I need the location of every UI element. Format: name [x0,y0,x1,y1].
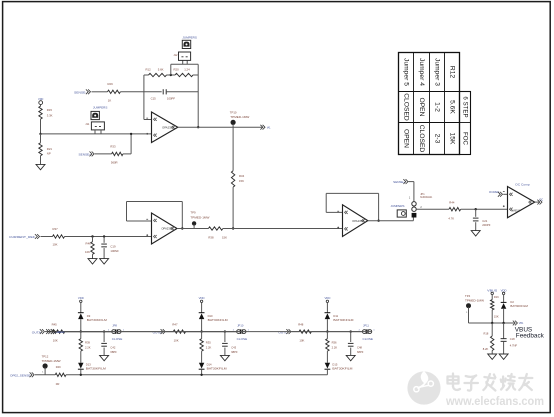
svg-text:OPA2350: OPA2350 [162,125,174,129]
svg-text:R37: R37 [53,227,59,231]
svg-text:TP9: TP9 [190,211,196,215]
svg-text:CURRENT_REF: CURRENT_REF [9,235,35,239]
svg-text:BAT30KFILM: BAT30KFILM [333,319,353,322]
svg-text:R18: R18 [484,332,489,336]
svg-text:JP10: JP10 [237,324,244,328]
svg-text:VDD: VDD [78,296,84,300]
svg-text:Feedback: Feedback [516,332,545,339]
svg-text:BAT30KFILM: BAT30KFILM [332,368,352,371]
svg-text:C15: C15 [151,96,157,100]
svg-text:R15: R15 [47,108,53,112]
svg-text:JUMPERS: JUMPERS [182,35,197,39]
svg-text:R48: R48 [298,322,304,326]
svg-text:R33: R33 [110,145,116,149]
svg-text:R36: R36 [332,341,337,345]
svg-text:R12: R12 [146,67,152,71]
svg-text:1.24: 1.24 [184,67,190,71]
svg-text:C48: C48 [357,345,362,349]
svg-text:6 STEP: 6 STEP [462,96,469,117]
svg-text:IA1: IA1 [267,126,271,129]
svg-text:R34: R34 [239,174,245,178]
svg-text:OC Comp: OC Comp [515,182,530,186]
svg-text:C43: C43 [231,345,236,349]
svg-text:TPMED-1MW: TPMED-1MW [190,217,210,220]
svg-text:2.2K: 2.2K [206,346,212,350]
svg-text:C19: C19 [110,244,116,248]
svg-text:R47: R47 [172,322,178,326]
svg-text:D13: D13 [86,363,91,367]
svg-text:D10: D10 [208,314,213,318]
svg-text:4.7K: 4.7K [448,216,454,220]
svg-text:VB1: VB1 [519,322,524,325]
svg-text:OPA2350: OPA2350 [161,227,173,231]
svg-text:TP12: TP12 [42,354,49,358]
svg-text:R44: R44 [449,201,455,205]
svg-text:JP1: JP1 [420,193,425,196]
svg-text:R49: R49 [56,365,61,369]
svg-text:TP4: TP4 [465,294,471,298]
svg-text:R12: R12 [449,66,456,79]
svg-text:R16: R16 [494,295,499,299]
svg-text:4.7NF: 4.7NF [510,344,518,348]
svg-text:CLOSE: CLOSE [363,337,374,341]
svg-text:CLOSED: CLOSED [418,125,425,153]
svg-text:C18: C18 [510,337,515,341]
svg-text:BAT30KFILM: BAT30KFILM [87,319,107,322]
svg-text:2.2K: 2.2K [332,346,338,350]
svg-text:5.6K: 5.6K [449,100,456,114]
svg-text:J12: J12 [173,53,178,57]
svg-text:BAT30KFILM: BAT30KFILM [207,368,227,371]
svg-text:61300311121: 61300311121 [420,197,433,199]
svg-text:560R: 560R [111,160,118,164]
svg-text:LM6511: LM6511 [511,210,520,213]
svg-text:TPMED-1MW: TPMED-1MW [230,116,250,119]
svg-text:OC: OC [539,198,543,202]
svg-text:TPMED-1MW: TPMED-1MW [465,300,485,303]
svg-text:www.elecfans.com: www.elecfans.com [445,394,544,408]
svg-text:CLOSE: CLOSE [237,337,248,341]
svg-text:Jumper 3: Jumper 3 [434,58,441,86]
svg-text:D15: D15 [332,363,337,367]
svg-text:D9: D9 [87,314,91,318]
svg-text:CLOSE: CLOSE [112,337,123,341]
svg-text:2-3: 2-3 [434,134,441,144]
svg-text:Jumper 5: Jumper 5 [403,58,410,86]
svg-text:68PF: 68PF [231,350,238,354]
svg-text:3.3K: 3.3K [47,113,53,117]
svg-text:1K: 1K [108,98,112,102]
svg-text:R20: R20 [174,67,180,71]
svg-text:15K: 15K [239,179,244,183]
svg-text:R39: R39 [85,341,90,345]
svg-text:ISENC: ISENC [57,331,65,334]
svg-text:OPEN: OPEN [403,129,410,148]
svg-text:BAT30KFILM: BAT30KFILM [208,319,228,322]
svg-text:D14: D14 [207,363,212,367]
svg-text:D11: D11 [333,314,338,318]
svg-text:JP11: JP11 [363,324,369,328]
svg-text:0R: 0R [56,382,60,386]
svg-text:VDD: VDD [199,296,205,300]
svg-text:JP8: JP8 [112,324,117,328]
svg-text:TPMED-1MW: TPMED-1MW [42,360,62,363]
svg-text:10K: 10K [53,243,58,247]
svg-text:BAT30KFILM: BAT30KFILM [86,368,106,371]
svg-text:FOC: FOC [462,132,469,146]
svg-text:R45: R45 [52,322,58,326]
svg-text:CLOSED: CLOSED [403,93,410,121]
svg-text:100PF: 100PF [167,96,176,100]
svg-text:1-2: 1-2 [434,102,441,112]
svg-text:BAT30KFILM: BAT30KFILM [510,305,528,308]
svg-text:R29: R29 [108,82,114,86]
svg-text:10K: 10K [53,339,58,343]
svg-text:10K: 10K [174,339,179,343]
svg-text:68PF: 68PF [110,350,117,354]
svg-text:8.2K: 8.2K [483,347,489,351]
svg-text:10K: 10K [85,250,90,254]
svg-text:SENSE-: SENSE- [74,90,87,94]
svg-text:J11: J11 [85,122,90,126]
svg-text:R38: R38 [208,236,214,240]
svg-text:VDD: VDD [324,296,330,300]
svg-text:5.6K: 5.6K [158,67,164,71]
svg-text:OPEN: OPEN [418,98,425,117]
svg-text:OPA2350: OPA2350 [352,219,364,223]
svg-text:68PF: 68PF [357,350,364,354]
svg-text:15K: 15K [494,315,499,319]
svg-text:JUMPERS: JUMPERS [391,204,405,208]
svg-text:JUMPERS: JUMPERS [93,105,108,109]
svg-text:D2: D2 [510,300,514,304]
svg-text:R35: R35 [206,341,211,345]
svg-text:2.2K: 2.2K [85,346,91,350]
svg-text:15K: 15K [449,133,456,145]
svg-text:100NF: 100NF [110,249,119,253]
svg-text:200PF: 200PF [482,223,491,227]
svg-text:TP10: TP10 [230,110,237,114]
svg-text:C42: C42 [110,345,115,349]
svg-text:OUTA: OUTA [32,331,41,335]
svg-text:15K: 15K [222,236,227,240]
svg-text:R46: R46 [86,242,92,246]
svg-text:Jumper 4: Jumper 4 [418,58,425,86]
svg-text:10K: 10K [299,339,304,343]
svg-text:R21: R21 [47,147,53,151]
svg-text:NP: NP [47,152,51,156]
svg-text:OP02_SENSE: OP02_SENSE [10,374,31,378]
